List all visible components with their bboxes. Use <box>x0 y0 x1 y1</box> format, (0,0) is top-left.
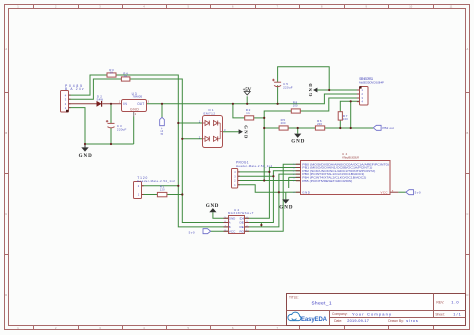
connector PROG1 <box>232 160 273 188</box>
wire C5 top to sensor GND net <box>278 67 330 90</box>
junction at D2/U3/C3 node <box>110 103 112 105</box>
wire D1 pin3 to GND <box>223 131 239 133</box>
svg-text:1.0: 1.0 <box>451 299 459 304</box>
svg-text:D: D <box>466 293 468 297</box>
wire U4 VCC to 5v0 flag <box>390 191 398 193</box>
wire U2 DE to U4 PB2 <box>245 171 301 223</box>
wire VIN from D2 cathode to U3 IN (red) <box>102 103 121 105</box>
transceiver U2 MAX487 <box>224 208 254 234</box>
wire net RS485-B from P0485 pin4 through R3 to D1 pin1 and U2 pin B <box>69 75 108 95</box>
svg-text:200: 200 <box>281 121 286 125</box>
wire divider GND drop <box>297 128 299 134</box>
junction riser at R5 row <box>263 127 265 129</box>
resistor R7 (vertical) <box>338 112 348 121</box>
junction riser B at D1 pin1 <box>177 122 179 124</box>
svg-text:Date:: Date: <box>334 319 342 323</box>
svg-text:A: A <box>467 47 469 51</box>
wire PROG1 pin4 (MOSI) <box>238 171 270 173</box>
wire U2 VCC pin to 5v0 flag <box>211 230 228 232</box>
wire U4 PB4 stub <box>289 177 301 188</box>
junction dots <box>84 89 352 226</box>
internal diodes bottom row <box>205 136 209 141</box>
svg-text:ATtiny85-20SUR: ATtiny85-20SUR <box>342 156 359 160</box>
svg-text:DE: DE <box>240 221 245 225</box>
junction sensor pin4 / R7 <box>350 100 352 102</box>
wire +5V rail drop to R2 <box>233 104 245 118</box>
junction ground rail left <box>84 143 86 145</box>
junction sensor GND net <box>328 89 330 91</box>
resistor R8 <box>291 100 300 113</box>
svg-text:C: C <box>5 212 7 216</box>
wire GND from P0485 pin1 down to ground rail <box>69 108 86 144</box>
svg-text:120: 120 <box>160 188 165 192</box>
svg-text:B: B <box>467 131 469 135</box>
connector SENSORS1 <box>357 77 384 105</box>
diode D2 <box>97 95 104 107</box>
wire PROG1 pin2 to U4 PB5 <box>238 180 301 182</box>
wire R2 right lead <box>254 117 265 119</box>
wire U4 GND symbol stem <box>285 192 287 199</box>
svg-text:100: 100 <box>343 117 348 121</box>
svg-text:TITLE:: TITLE: <box>289 296 299 300</box>
svg-text:C: C <box>466 212 468 216</box>
wire D1 pin2 <box>182 138 202 140</box>
netflag PB2 out <box>373 125 394 130</box>
svg-text:GND: GND <box>279 205 293 210</box>
svg-text:A: A <box>229 221 231 225</box>
svg-text:GND: GND <box>308 83 313 97</box>
ground (under U4 GND pin) <box>279 199 293 210</box>
svg-text:GND: GND <box>229 216 236 220</box>
wire T120 pin2 to riser <box>142 185 179 187</box>
svg-text:Sheet_1: Sheet_1 <box>312 301 332 306</box>
svg-text:100: 100 <box>293 103 298 107</box>
ground (pointing up, at U2 GND) <box>206 204 219 212</box>
ground (sideways right, at D1 pin3) <box>239 125 249 139</box>
svg-text:U4: U4 <box>342 152 348 156</box>
svg-text:1K: 1K <box>124 74 128 78</box>
junction riser A at R1 <box>181 193 183 195</box>
svg-text:DI: DI <box>240 216 245 220</box>
junction C5 on +5V rail <box>277 103 279 105</box>
svg-text:Header-Mate-2.54_1x4: Header-Mate-2.54_1x4 <box>236 164 272 168</box>
wire C5 bottom lead to +5V rail <box>277 85 279 104</box>
MCU U4 ATtiny85 <box>293 152 394 194</box>
junction R7 bottom on PB2 row <box>339 127 341 129</box>
internal connecting wires <box>202 123 223 139</box>
wire R1 right to riser <box>167 194 182 196</box>
power symbol +5V <box>243 88 252 95</box>
wire PROG1 pin3 (SCK) <box>238 175 274 177</box>
svg-text:A: A <box>5 47 7 51</box>
wire riser from sensor pin4 junction down to PB2-out row <box>350 101 352 128</box>
resistor R3 <box>107 68 116 77</box>
wire divider row R5 left <box>264 127 279 129</box>
svg-text:GND: GND <box>206 204 219 209</box>
wire U2 GND pin to ground symbol <box>213 212 228 218</box>
svg-text:MuSEODOVC-5.08-4P: MuSEODOVC-5.08-4P <box>359 80 384 84</box>
svg-text:Header-Mate-2.54_1x2: Header-Mate-2.54_1x2 <box>137 179 175 183</box>
svg-text:PB2 out: PB2 out <box>382 126 394 130</box>
junction DE-RE tie <box>260 224 262 226</box>
wire divider row R5 right to R6 left <box>288 127 315 129</box>
svg-text:78M05: 78M05 <box>132 95 142 99</box>
wire net RS485-A from P0485 pin3 through R4 <box>69 79 122 99</box>
EasyEDA logo <box>288 312 328 323</box>
wire ground rail under U3 <box>85 143 134 145</box>
svg-text:EasyEDA: EasyEDA <box>301 317 328 323</box>
svg-text:GND: GND <box>130 108 139 112</box>
netflag 5v0 (at U4 VCC) <box>406 190 421 195</box>
svg-text:1K: 1K <box>110 71 114 75</box>
svg-text:1/1: 1/1 <box>453 312 460 316</box>
svg-text:PB5 (PCINT5/RESET/ADC0/DW): PB5 (PCINT5/RESET/ADC0/DW) <box>302 179 352 183</box>
capacitor C5 <box>272 79 293 90</box>
wire U3 GND pin riser <box>133 112 135 117</box>
junction PROG1 pin4 riser <box>268 171 270 173</box>
wire C3 bottom lead <box>110 128 112 144</box>
wire VIN from P0485 pin2 to D2 anode (red) <box>69 103 97 105</box>
svg-text:GND: GND <box>79 154 93 159</box>
ground GND (main, under P0485) <box>79 144 93 159</box>
netflag +5V (vertical, at U3 output) <box>159 117 164 136</box>
junction R2 right node <box>263 117 265 119</box>
svg-text:5v0: 5v0 <box>415 191 421 195</box>
svg-text:GND: GND <box>291 140 305 145</box>
wire RESET net: R8 left, R2 right junction, riser to PB5 row <box>264 111 291 181</box>
svg-text:B A 24v: B A 24v <box>65 87 84 91</box>
wire C3 top lead riser <box>110 104 112 124</box>
svg-text:RO: RO <box>240 229 244 233</box>
wire +5V power symbol stem <box>246 96 248 104</box>
resistor R6 <box>315 119 324 130</box>
junction +5V symbol <box>246 103 248 105</box>
svg-text:5v0: 5v0 <box>189 230 195 234</box>
wire R7 top to SENSORS1 pin4 <box>340 101 359 111</box>
wire sensor GND to SENSORS1 pin1 <box>317 89 359 91</box>
svg-text:Your Company: Your Company <box>352 311 391 316</box>
resistor R1 <box>157 185 167 197</box>
wire R7 bottom lead <box>339 120 341 128</box>
wire DE-RE tie <box>260 223 262 227</box>
junction riser B at T120 pin2 <box>177 185 179 187</box>
svg-text:REV:: REV: <box>436 300 444 304</box>
ground (sideways left, at SENSORS1 pin1) <box>308 83 317 97</box>
diode bridge D1 EM712 <box>199 108 226 147</box>
junction riser A at D1 pin2 <box>181 138 183 140</box>
junction +5V flag riser <box>161 103 163 105</box>
svg-text:B: B <box>229 225 231 229</box>
wire U2 RE to U4 PB3 <box>245 174 301 227</box>
svg-text:MAX487ESA+T: MAX487ESA+T <box>228 211 254 215</box>
svg-text:S4W: S4W <box>97 98 104 102</box>
wire net RS485-B right of R3, riser x=178.3 down to U2 <box>116 75 228 227</box>
wire PROG1 pin1 to GND net <box>238 185 286 193</box>
junction U4 GND net <box>278 191 280 193</box>
connector T120 <box>134 176 176 199</box>
svg-text:D: D <box>5 293 7 297</box>
junction C3 to ground rail <box>110 143 112 145</box>
connector P0485 <box>61 84 84 112</box>
svg-text:B: B <box>5 131 7 135</box>
ground (under R5/R6 divider) <box>291 134 305 145</box>
svg-text:2019-09-17: 2019-09-17 <box>347 319 369 323</box>
junction riser on PB2 row <box>350 127 352 129</box>
internal diodes top row <box>205 121 209 126</box>
wire R8 right to SENSORS1 pin3 <box>300 98 359 111</box>
netflag 5v0 (at U2 VCC) <box>189 229 211 235</box>
svg-text:OUT: OUT <box>137 102 144 106</box>
junction divider GND <box>297 127 299 129</box>
svg-text:Drawn By:: Drawn By: <box>388 319 404 323</box>
wire T120 pin1 to R1 <box>142 194 158 196</box>
wire U4 GND pin <box>286 191 301 193</box>
junction +5V rail to R2 <box>232 103 234 105</box>
capacitor C3 <box>106 120 127 132</box>
svg-text:200: 200 <box>317 122 322 126</box>
svg-text:RE: RE <box>240 225 245 229</box>
junction RESET at PB5 row <box>263 179 265 181</box>
svg-text:VCC: VCC <box>381 190 388 194</box>
wire +5V netflag riser <box>161 104 163 118</box>
resistor R5 <box>279 118 288 130</box>
resistor R4 <box>121 72 129 82</box>
wire R6 right to PB2 out flag <box>325 127 374 129</box>
svg-text:GND: GND <box>302 190 310 194</box>
wire U2 DI to U4 PB1 <box>245 168 301 219</box>
svg-text:220uF: 220uF <box>117 128 127 132</box>
svg-text:+5V: +5V <box>159 128 163 136</box>
title block <box>287 294 466 326</box>
svg-text:220uF: 220uF <box>283 86 293 90</box>
wire net RS485-A right of R4, riser x=182.3 down to U2 pin A <box>130 79 228 223</box>
junction PROG1 pin3 riser <box>272 175 274 177</box>
wire D1 pin1 <box>178 122 202 124</box>
svg-text:slros: slros <box>406 319 418 323</box>
svg-text:EM712: EM712 <box>204 111 216 115</box>
svg-text:Company:: Company: <box>332 312 348 316</box>
svg-text:+5V: +5V <box>243 88 252 93</box>
resistor R2 <box>245 108 254 120</box>
regulator U3 78M05 <box>119 92 150 116</box>
svg-text:GND: GND <box>244 125 249 139</box>
wire U2 RO to U4 PB0 <box>245 164 301 231</box>
wire +5V rail from U3 OUT to SENSORS1 pin2 <box>146 94 359 104</box>
svg-text:Sheet:: Sheet: <box>435 312 444 316</box>
svg-text:VCC: VCC <box>229 229 236 233</box>
